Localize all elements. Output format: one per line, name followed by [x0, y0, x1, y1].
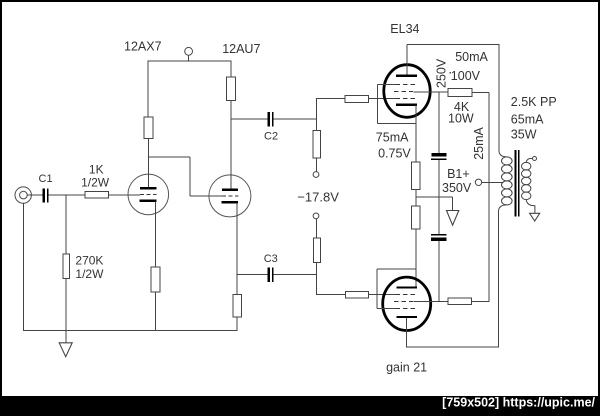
resistor upper grid stopper — [345, 96, 369, 103]
svg-text:[759x502] https://upic.me/: [759x502] https://upic.me/ — [442, 396, 595, 410]
wire node to 270K — [65, 195, 67, 254]
svg-text:10W: 10W — [448, 112, 474, 126]
wire upper bias vertical — [316, 98, 318, 131]
pentode V4 EL34 envelope — [383, 277, 431, 330]
ground symbol secondary — [530, 213, 540, 221]
secondary output terminal circle — [533, 157, 537, 161]
wire lower screen resistor to feed line — [472, 300, 490, 302]
capacitor C3 — [267, 267, 273, 282]
wire to lower tube cathode — [415, 229, 417, 287]
supply terminal circle — [185, 47, 193, 55]
V1 plate bar — [140, 187, 156, 189]
svg-text:75mA: 75mA — [376, 130, 409, 144]
resistor R2 270K — [63, 254, 70, 279]
resistor V2 plate load — [227, 77, 236, 100]
capacitor screen bypass lower — [431, 234, 447, 241]
wire terminal to rail — [188, 55, 190, 61]
wire V1 cathode resistor to rail — [154, 292, 156, 331]
svg-text:C3: C3 — [264, 253, 278, 265]
wire grid stopper to tube — [369, 98, 397, 100]
label 1K 1/2W — [81, 162, 110, 189]
V1 grid dashes — [140, 193, 157, 195]
svg-text:12AX7: 12AX7 — [124, 40, 162, 54]
V3 cathode lead down — [415, 105, 417, 162]
svg-text:35W: 35W — [511, 128, 537, 142]
wire lower terminal to resistor — [316, 219, 318, 238]
resistor upper cathode — [412, 162, 420, 189]
wire grid stopper to tube — [368, 294, 396, 296]
wire 1K to 12AX7 grid — [108, 194, 140, 196]
V4 cathode bar — [397, 286, 418, 288]
primary top lead curve — [499, 150, 507, 157]
wire V2 cathode to C3 — [237, 274, 267, 276]
svg-text:C2: C2 — [264, 131, 278, 143]
V4 g3 tie wire — [377, 307, 397, 309]
top rail to transformer — [407, 44, 500, 46]
V2 plate bar — [222, 189, 238, 191]
V4 g2 dashes — [394, 300, 414, 302]
wire lower cap to lower screen node — [438, 241, 440, 302]
B1+ terminal circle — [475, 179, 481, 185]
svg-text:gain 21: gain 21 — [386, 361, 427, 375]
wire V2 plate to C2 — [231, 118, 267, 120]
resistor lower bias feed — [313, 238, 320, 263]
label 270K 1/2W — [75, 254, 104, 282]
resistor V1 plate load — [144, 117, 153, 138]
svg-text:350V: 350V — [442, 181, 472, 195]
svg-text:1K: 1K — [89, 162, 104, 176]
V3 suppressor-cathode box left vertical — [376, 85, 378, 124]
V3 plate bar — [396, 75, 417, 77]
svg-text:1/2W: 1/2W — [81, 176, 110, 190]
svg-text:EL34: EL34 — [390, 22, 419, 36]
svg-text:250V: 250V — [435, 58, 449, 88]
wire V4 plate run right — [407, 346, 499, 348]
svg-text:270K: 270K — [75, 254, 103, 268]
V1 cathode lead down — [154, 202, 156, 267]
V2 grid dashes — [222, 195, 239, 197]
capacitor C2 — [267, 112, 273, 127]
V4 g1 dashes — [396, 294, 416, 296]
svg-text:65mA: 65mA — [511, 113, 544, 127]
wire plate resistor to rail — [147, 61, 149, 117]
V1 plate lead up — [147, 138, 149, 187]
primary bottom lead curve — [498, 205, 506, 212]
svg-text:0.75V: 0.75V — [378, 146, 411, 160]
V4 suppressor-cathode box left vertical — [376, 269, 378, 309]
V1 cathode bar — [140, 200, 157, 202]
lower bias terminal circle — [313, 213, 319, 219]
V3 suppressor-cathode box bottom wire — [377, 123, 416, 125]
wire rail down to primary top — [498, 45, 500, 151]
wire to upper bias terminal — [316, 158, 318, 172]
V3 g2 dashes — [394, 91, 414, 93]
wire 270K to ground rail — [65, 279, 67, 343]
transformer core bars — [515, 150, 520, 217]
primary winding coils — [502, 157, 513, 205]
secondary winding coils — [522, 162, 531, 199]
wire V2 cathode resistor to rail — [236, 317, 238, 331]
V4 suppressor-cathode box top wire — [377, 268, 416, 270]
upper bias terminal circle — [313, 172, 319, 178]
resistor lower grid stopper — [346, 291, 369, 298]
ground stem near B1+ — [452, 197, 454, 211]
resistor V2 cathode — [233, 295, 241, 318]
wire V2 plate resistor to rail — [230, 61, 232, 77]
footer watermark bar — [0, 396, 600, 416]
wire V1 plate to V2 grid coupling — [148, 157, 221, 196]
wire jack to C1 — [27, 194, 42, 196]
resistor R1 1K — [85, 192, 108, 198]
svg-text:2.5K PP: 2.5K PP — [511, 95, 557, 109]
tick before 100V — [449, 72, 451, 74]
wire cathode tap to ground — [416, 196, 453, 198]
svg-text:100V: 100V — [451, 69, 481, 83]
V3 cathode bar — [396, 104, 417, 106]
svg-text:B1+: B1+ — [447, 167, 470, 181]
input jack J1 — [15, 187, 31, 203]
wire B1+ to centre tap — [482, 181, 504, 183]
wire jack ground drop — [22, 203, 24, 331]
V3 g2 lead out right — [414, 91, 449, 93]
ground rail wire — [23, 330, 238, 332]
wire C2 to bias node — [273, 118, 317, 120]
svg-text:25mA: 25mA — [472, 126, 486, 159]
svg-text:1/2W: 1/2W — [75, 267, 104, 281]
secondary top lead curve — [526, 158, 532, 162]
svg-text:12AU7: 12AU7 — [222, 42, 260, 56]
pentode V3 EL34 envelope — [384, 65, 430, 118]
V2 cathode lead down — [236, 203, 238, 295]
V2 cathode bar — [221, 201, 238, 203]
wire V4 plate up to transformer — [497, 212, 499, 348]
V4 plate lead down — [406, 318, 408, 347]
wire 4K to feed line — [472, 92, 489, 94]
capacitor C1 — [43, 188, 49, 202]
resistor lower cathode — [412, 206, 420, 229]
svg-text:C1: C1 — [39, 173, 53, 185]
wire between caps — [438, 160, 440, 234]
secondary bottom lead curve — [526, 200, 535, 214]
ground symbol bottom-left — [59, 343, 72, 357]
ground symbol near B1+ — [447, 211, 459, 226]
V4 g2 lead out right — [414, 300, 448, 302]
V2 plate lead up — [230, 100, 232, 188]
wire C3 to lower bias node — [273, 274, 317, 276]
resistor V1 cathode — [151, 267, 160, 292]
triode V2 12AU7 envelope — [209, 175, 251, 217]
wire lower bias to grid resistor — [317, 294, 346, 296]
resistor upper bias feed — [313, 131, 320, 159]
V4 plate bar — [397, 316, 418, 318]
V3 plate lead to rail — [406, 45, 408, 75]
V3 g3 dashes — [396, 84, 416, 86]
supply rail wire — [148, 60, 232, 62]
svg-text:−17.8V: −17.8V — [297, 189, 339, 204]
svg-text:50mA: 50mA — [455, 50, 488, 64]
V3 g1 dashes — [396, 98, 416, 100]
wire C1 to 1K resistor — [48, 194, 85, 196]
wire lower bias vertical — [316, 263, 318, 296]
V4 g3 dashes — [396, 307, 416, 309]
triode V1 12AX7 envelope — [128, 174, 169, 215]
resistor 4K screen feed — [448, 89, 472, 97]
resistor lower screen feed — [448, 298, 472, 305]
screen feed vertical wire — [488, 93, 490, 302]
V3 g3 tie wire — [377, 84, 396, 86]
wire screen node down to cap — [438, 92, 440, 153]
capacitor screen bypass upper — [431, 153, 447, 160]
wire upper bias to grid resistor — [317, 97, 345, 99]
wire cathode junction — [415, 189, 417, 206]
